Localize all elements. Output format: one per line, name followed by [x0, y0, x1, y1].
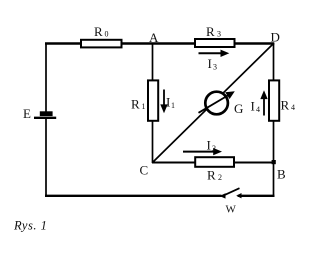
svg-text:R: R [207, 168, 216, 183]
svg-text:0: 0 [105, 30, 109, 39]
svg-text:Rys. 1: Rys. 1 [13, 219, 47, 233]
svg-text:D: D [271, 30, 280, 45]
svg-text:R: R [281, 98, 290, 113]
svg-text:2: 2 [212, 144, 216, 153]
svg-text:B: B [277, 167, 286, 182]
svg-text:I: I [207, 138, 211, 153]
svg-text:4: 4 [291, 103, 295, 112]
svg-text:3: 3 [217, 30, 221, 39]
svg-text:W: W [226, 204, 237, 216]
svg-text:C: C [140, 163, 149, 178]
svg-text:I: I [166, 95, 170, 110]
svg-text:1: 1 [142, 102, 146, 111]
svg-text:G: G [234, 101, 243, 116]
svg-text:3: 3 [213, 63, 217, 72]
svg-text:R: R [206, 24, 215, 39]
svg-text:E: E [23, 106, 31, 121]
svg-text:2: 2 [218, 173, 222, 182]
svg-text:I: I [251, 99, 255, 114]
svg-text:1: 1 [171, 101, 175, 110]
svg-text:4: 4 [256, 105, 260, 114]
svg-text:I: I [208, 56, 212, 71]
svg-text:A: A [149, 30, 159, 45]
svg-text:R: R [131, 97, 140, 112]
svg-text:R: R [94, 24, 103, 39]
